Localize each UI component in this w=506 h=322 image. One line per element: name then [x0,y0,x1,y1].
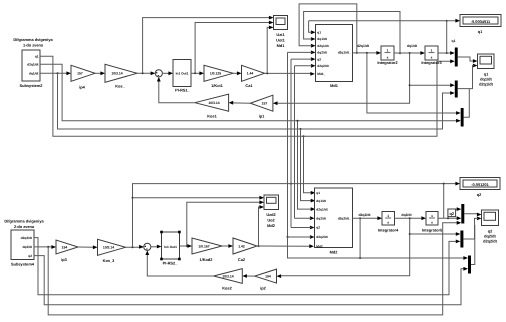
svg-text:ip4: ip4 [79,85,85,90]
arrow into ip3 [51,245,56,249]
integrator Integrator2 [377,46,398,65]
svg-text:1: 1 [387,49,389,53]
wire cross vertical q2 column [290,59,292,227]
mux Mux6 [468,256,471,274]
arrow into 1/Kct1 [199,71,204,75]
svg-text:PI-RS2_: PI-RS2_ [163,260,179,265]
junction dq2/dt branch [47,246,49,248]
arrow scope2 in3 [259,205,264,209]
subsystem Md2 [315,188,353,255]
wire dq1/dt down feedback column [277,53,410,103]
subsystem PI-RS1_ [173,60,191,93]
wire branch up to scope1 input3 [267,27,270,73]
arrow mux4 in1 [457,207,462,211]
gain 1/Kod2 value 1/0.167 [192,238,222,262]
svg-text:157: 157 [77,72,83,76]
svg-text:Md2: Md2 [316,244,323,248]
gain 1/Kct1 value 1/0.125 [204,65,233,88]
svg-text:1: 1 [431,49,433,53]
wire mux6 output [471,225,475,265]
mux Mux4 [461,204,464,224]
gain Kos_ value 10/3.14 [105,64,137,88]
wire Ca2 to Md2 input7 [257,245,311,247]
arrow into ip2 [277,274,282,278]
junction on Md2 output [359,217,361,219]
svg-text:Kos1: Kos1 [207,114,217,119]
wire Md2 output branch down to d2q2 line [359,218,361,258]
sum S1 [155,70,162,77]
wire mux1 to scope q1 [458,57,474,61]
svg-text:q1: q1 [35,55,39,59]
svg-text:d2q1/dt: d2q1/dt [27,63,39,67]
wire q2 display down to integrator5 out [443,184,445,219]
wire q1 up to display line [446,21,448,53]
junction dq1/dt branch [57,72,59,74]
svg-text:dq2/dt: dq2/dt [317,51,327,55]
arrow into ip1 [273,101,278,105]
svg-text:ip3: ip3 [61,257,67,262]
arrow into Kos_3 [93,245,98,249]
arrow into ip4 [66,71,71,75]
arrow Md1 in2 [311,37,316,41]
arrow mux3 in1 [456,111,461,115]
arrow into Ca1 [237,71,242,75]
svg-text:Md2: Md2 [267,223,276,228]
svg-text:ip1: ip1 [259,113,265,118]
svg-text:dq1/dt: dq1/dt [316,199,326,203]
arrow mux5 in2 [456,240,461,244]
wire d2q1/dt from Subsystem2 to Md2 input3 and mux3 [40,64,460,120]
svg-text:Integrator5: Integrator5 [422,228,443,233]
arrow into Kos_ [100,71,105,75]
subsystem Subsystem4 [11,230,35,267]
mux Mux3 [461,108,464,127]
arrow into display q2 [455,182,460,186]
wire q2 from Subsystem4 around bottom to mux6 input2 [34,256,465,305]
junction q1 line to Md2 in1 [303,135,305,137]
gain Kos1 value 10/3.14 [195,94,229,118]
scope Uzt1 Uot1 Md1 [274,16,288,49]
svg-text:Ca1: Ca1 [245,83,253,88]
junction q2 display [443,183,445,185]
svg-text:1.42: 1.42 [238,244,245,248]
svg-text:Uot1: Uot1 [276,38,285,43]
junction d2q1/dt to mux3 [366,52,368,54]
wire branch dq1/dt down to Md2 input2 [58,73,452,129]
gain Kos_3 value 10/3.14 [98,239,126,262]
junction d2q1/dt branch [297,120,299,122]
svg-text:Uzd2: Uzd2 [266,212,276,217]
wire PI-RS1_ to 1/Kct1 [191,72,201,74]
svg-text:d2q2/dt_: d2q2/dt_ [338,216,351,220]
svg-text:dq2/dt: dq2/dt [316,216,326,220]
wire Kos1 to sum1 minus [159,80,195,102]
wire Ca1 to Md1 input7 Md1_ [265,72,313,74]
junction on integrator2 output [399,52,401,54]
junction dq1/dt to mux2 [409,84,411,86]
gain Ca1 value 1.44 [242,65,265,88]
junction scope2 in1 branch [132,197,134,199]
arrow scope q1 in2 [473,64,478,68]
wire Integrator3 q1 to mux1 input1 [438,52,451,54]
wire sum1 to PI-RS1_ [162,72,170,74]
wire ip2 to Kos2 [246,275,255,277]
svg-text:Uzt1: Uzt1 [276,32,285,37]
gain ip1 value 157 [250,95,273,118]
svg-text:Md2: Md2 [330,250,339,255]
svg-text:d2q1/dt: d2q1/dt [317,44,329,48]
svg-text:d2q1/dt: d2q1/dt [357,44,370,48]
wire dq1 drop to Md2 input2 [301,129,313,201]
svg-text:In1 Out1: In1 Out1 [164,245,177,249]
junction dq1/dt [409,52,411,54]
junction d2q2/dt tee [359,257,361,259]
scope q1 dq1/dt d2q1/dt [478,54,495,87]
gain ip2 value 194 [255,269,277,290]
mux Mux5 [460,231,463,248]
wire stub into Md1 in4 [288,51,312,53]
wire Kos2 to sum2 minus [147,254,213,276]
svg-text:10/3.14: 10/3.14 [208,101,219,105]
gain ip4 value 157 [71,65,95,89]
arrow mux4 in2 [457,216,462,220]
arrow into Integrator3 [420,51,425,55]
svg-text:1/Kod2: 1/Kod2 [200,257,214,262]
svg-text:10/3.14: 10/3.14 [111,72,122,76]
subsystem Subsystem2 [20,50,44,88]
arrow into sum1 [151,71,156,75]
subsystem PI-RS2_ selected [160,231,181,266]
svg-text:PI-RS1_: PI-RS1_ [175,88,191,93]
svg-text:q2: q2 [317,57,321,61]
mux Mux1 [455,48,458,67]
arrow scope q1 in1 [473,59,478,63]
wire dq1/dt from Subsystem2 to gain ip4 [40,72,68,74]
svg-text:d2q2/dt: d2q2/dt [358,213,371,217]
wire Kos_ to sum1 [137,72,155,74]
wire d2q2/dt from Subsystem4 around bottom to mux5 [34,238,457,295]
arrow mux5 in1 [456,232,461,236]
svg-text:10/3.14: 10/3.14 [103,246,114,250]
node title Subsystem2 [13,37,53,48]
arrow into Md2 in3 [311,207,316,211]
arrow into Integrator4 [377,216,382,220]
wire branch up to scope1 input2 [195,23,270,74]
display q2 value -0.001201 [460,178,500,198]
label q2 tag box [448,209,456,217]
svg-text:In1 Out1: In1 Out1 [176,72,189,76]
arrow Md1 in4 [311,51,316,55]
arrow into Md1 in7 [310,72,315,76]
svg-text:Ca2: Ca2 [238,257,246,262]
svg-text:Difgramma dvigeniya: Difgramma dvigeniya [13,37,53,42]
svg-text:s: s [387,55,389,59]
junction dq2/dt to mux5 [409,233,411,235]
arrow into Integrator2 [376,51,381,55]
arrow Md1 in3 [311,44,316,48]
arrow up into sum1 [157,77,161,82]
wire PI-RS2_ to 1/Kod2 [180,245,190,247]
wire branch d2q1/dt down to Md2 [298,121,313,209]
wire dq2/dt branch around bottom to mux6 input1 [48,223,458,315]
wire branch up to q2 display line [133,184,457,248]
junction Uot2 branch [186,245,188,247]
arrow mux2 in2 [450,91,455,95]
wire Integrator4 to Integrator5 [395,217,423,219]
arrow into sum2 [139,245,144,249]
svg-text:1/0.167: 1/0.167 [198,244,209,248]
svg-text:s: s [431,221,433,225]
arrow into Kos2 [242,274,247,278]
wire Md2 output d2q2/dt to Integrator4 [353,217,379,219]
svg-text:Integrator2: Integrator2 [377,60,398,65]
wire 1/Kod2 to Ca2 [222,245,230,247]
svg-text:-0.0004011: -0.0004011 [471,19,491,24]
svg-text:q2: q2 [28,254,32,258]
svg-text:1/0.125: 1/0.125 [210,72,221,76]
junction q2 jog [447,217,449,219]
wire d2q1/dt loop top rect into Md1 in3 [299,4,357,53]
arrow scope q2 in1 [477,213,482,217]
svg-text:Md1_: Md1_ [317,72,325,76]
svg-text:q1: q1 [452,39,456,43]
svg-text:q1: q1 [317,31,321,35]
svg-text:Kos_3: Kos_3 [103,258,116,263]
svg-text:10/3.14: 10/3.14 [222,274,233,278]
arrow scope1 in1 [269,16,274,20]
wire Integrator5 q2 to mux4 in2 [438,217,458,219]
arrow mux6 in1 [463,256,468,260]
arrow into PI-RS2_ [157,245,162,249]
arrow into Integrator5 [421,216,426,220]
svg-text:q1: q1 [316,191,320,195]
wire ip3 to Kos_3 [78,246,94,248]
svg-text:1-do zvena: 1-do zvena [23,43,44,48]
svg-text:dq1/dt: dq1/dt [29,72,39,76]
arrow Md1 in1 [311,30,316,34]
wire mux5 to scope q2 in2 [463,218,478,239]
arrow scope2 in1 [259,196,264,200]
wire stub into Md1 in6 [295,65,312,67]
arrow mux3 in2 [456,119,461,123]
wire q1 loop into Md1 in1 [309,21,312,33]
svg-text:ip2: ip2 [260,285,266,290]
wire cross vertical d2q2/dt column [294,66,296,218]
integrator Integrator5 [422,212,443,233]
wire Kos_3 to sum2 [126,246,144,248]
arrow into Md2 in2 [311,199,316,203]
wire ip4 to Kos_ [95,72,102,74]
wire stub into Md2 in5 [291,227,311,229]
wire sum2 to PI-RS2_ [151,246,159,248]
junction reference branch [132,246,134,248]
wire q2 jog up to mux4 in1 [448,209,458,218]
svg-text:Uo2: Uo2 [267,217,275,222]
arrow scope q2 in2 [477,217,482,221]
svg-text:157: 157 [262,102,268,106]
svg-text:dq2/dt: dq2/dt [22,245,32,249]
wire q1 drop to Md2 input1 [304,136,313,193]
sum S2 [144,243,151,250]
arrow into Ca2 [228,244,233,248]
arrow scope1 in3 [269,26,274,30]
arrow Md2 in6 [310,235,315,239]
wire branch up to scope2 input2 [187,202,260,246]
arrow mux1 in2 [450,59,455,63]
svg-text:Subsystem2: Subsystem2 [20,83,44,88]
wire mux2 to scope q1 in2 [458,66,474,89]
arrow mux4 in3 [457,221,462,225]
display q1 value -0.0004011 [460,15,501,35]
scope q2 dq2/dt d2q2/dt [482,210,499,244]
svg-text:Difgramma dvigeniya: Difgramma dvigeniya [4,219,44,224]
wire Integrator2 to Integrator3 [394,52,422,54]
svg-text:Subsystem4: Subsystem4 [11,262,35,267]
junction dq2/dt [409,217,411,219]
arrow mux2 in1 [450,83,455,87]
svg-text:Md1: Md1 [330,83,339,88]
svg-text:d2q1/dt: d2q1/dt [316,207,328,211]
wire to scope2 input1 [133,197,261,199]
svg-text:dq1/dt: dq1/dt [317,37,327,41]
wire mux3 output [464,89,470,118]
arrow mux6 in2 [463,267,468,271]
svg-text:s: s [431,55,433,59]
wire ip1 to Kos1 [232,102,250,104]
wire cross vertical dq2/dt column [287,52,289,237]
svg-text:Integrator3: Integrator3 [421,60,442,65]
svg-text:2-do zvena: 2-do zvena [14,224,35,229]
svg-text:Kos_: Kos_ [115,84,125,89]
arrow into Md2 in1 [311,191,316,195]
junction Md2 torque branch [258,245,260,247]
arrow into Md2 in7 [309,244,314,248]
wire dq1/dt loop top rect into Md1 in2 [304,12,400,54]
mux Mux2 [455,81,458,98]
integrator Integrator4 [378,212,399,233]
wire d2q1/dt down to mux3 input1 [367,53,457,113]
wire d2q2/dt return under Md2 [288,237,465,258]
svg-text:d2q2/dt: d2q2/dt [483,239,498,244]
wire stub into Md2 in6 [288,236,312,238]
wire branch up to scope2 input3 [259,207,261,246]
junction dq1 line to Md2 in2 [300,128,302,130]
node title Subsystem4 [4,219,44,230]
svg-text:dq1/dt: dq1/dt [407,44,418,48]
svg-text:Integrator4: Integrator4 [378,228,399,233]
wire mux4 to scope q2 [464,213,478,216]
junction d2q2/dt column [287,236,289,238]
svg-text:1: 1 [387,214,389,218]
wire 1/Kct1 to Ca1 [233,72,238,74]
wire Uzt1 branch up to scope1 input1 [143,18,270,74]
wire dq2/dt down feedback column [280,218,409,276]
wire stub into Md2 in4 [295,217,312,219]
wire dq2/dt from Subsystem4 to ip3 [34,246,53,248]
wire Md1 output d2q1/dt to Integrator2 [353,52,378,54]
arrow Md1 in5 [311,57,316,61]
svg-text:-0.001201: -0.001201 [471,182,489,187]
svg-text:d2q1/dt: d2q1/dt [479,82,494,87]
junction q2 column on display line [290,183,292,185]
svg-text:194: 194 [265,274,271,278]
arrow mux1 in1 [450,51,455,55]
svg-text:1/Kct1: 1/Kct1 [211,83,224,88]
junction on Md1 output [356,52,358,54]
arrow into display q1 [455,19,460,23]
wire q1 from Subsystem2 to Md2 input1 [40,56,451,136]
junction Uzt1 branch [142,72,144,74]
gain Kos2 value 10/3.14 [214,269,243,291]
svg-text:1.44: 1.44 [247,72,254,76]
wire q1 display line across top [309,20,457,22]
svg-text:d2q2/dt: d2q2/dt [316,235,328,239]
junction q1 [446,52,448,54]
wire dq2/dt to mux5 input1 [410,233,458,235]
svg-text:d2q2/dt: d2q2/dt [21,236,33,240]
junction Uot1 branch [194,72,196,74]
svg-text:d2q1/dt_: d2q1/dt_ [338,51,351,55]
junction Md1 torque branch [266,72,268,74]
svg-text:q2: q2 [316,226,320,230]
arrow Md2 in5 [310,226,315,230]
svg-text:1: 1 [431,214,433,218]
wire stub into Md1 in5 [291,58,312,60]
arrow scope1 in2 [269,21,274,25]
svg-text:194: 194 [62,245,68,249]
integrator Integrator3 [421,46,442,65]
arrow up into sum2 [145,250,149,255]
arrow scope2 in2 [259,200,264,204]
arrow Md1 in6 [311,64,316,68]
arrow into 1/Kod2 [187,244,192,248]
svg-text:Md1: Md1 [277,43,286,48]
gain Ca2 value 1.42 [233,238,257,262]
svg-text:Kos2: Kos2 [222,286,232,291]
subsystem Md1 [316,25,353,89]
junction q1 display line [446,20,448,22]
arrow into PI-RS1_ [168,71,173,75]
arrow into Kos1 [229,101,234,105]
svg-text:dq2/dt: dq2/dt [401,213,412,217]
svg-text:d2q2/dt: d2q2/dt [317,64,329,68]
scope Uzd2 Uo2 Md2 [264,195,279,228]
svg-text:s: s [387,221,389,225]
gain ip3 value 194 [56,240,78,262]
wire dq1/dt to mux2 input1 [410,84,452,86]
arrow Md2 in4 [310,216,315,220]
